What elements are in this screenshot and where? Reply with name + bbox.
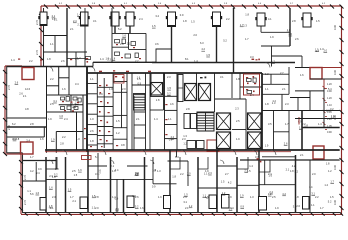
svg-text:5.2: 5.2 [223,39,227,43]
svg-text:2.3: 2.3 [285,102,289,106]
svg-text:2.8: 2.8 [152,168,156,172]
svg-text:1.5: 1.5 [116,119,120,123]
svg-text:2.1: 2.1 [282,87,286,91]
svg-text:2.8: 2.8 [292,19,296,23]
wall y58 segment [67,58,85,60]
top dimension line [41,5,342,7]
svg-text:1.1: 1.1 [203,194,207,198]
svg-text:2.70: 2.70 [7,84,11,90]
svg-text:4.6: 4.6 [170,102,174,106]
svg-text:1.4: 1.4 [132,194,136,198]
svg-text:1.9: 1.9 [48,117,52,121]
wall x289 [288,111,290,151]
svg-text:1.6: 1.6 [137,76,141,80]
wall x233 [233,8,235,73]
right col horizontals [113,81,127,83]
wall y94 [262,93,289,95]
red right annex outline [322,68,342,89]
wall y104 [59,104,83,106]
micro text on top dimension line [59,3,326,5]
svg-text:1.20: 1.20 [327,83,332,86]
svg-text:2.6: 2.6 [284,142,288,146]
svg-text:5.2: 5.2 [136,171,140,175]
svg-text:0.9: 0.9 [152,185,156,189]
wall y33 bath pods [112,32,146,34]
wall x290 [289,8,291,46]
left core columns [87,73,132,150]
svg-text:1.6: 1.6 [36,191,40,195]
column base bars [40,24,221,27]
red entry mark corridor [82,156,92,160]
svg-text:1.6: 1.6 [59,114,63,118]
svg-text:1.4: 1.4 [100,57,104,61]
shaft duct column [132,73,150,150]
svg-text:2.70: 2.70 [23,174,27,180]
stair 1 (treads) [134,94,146,111]
svg-text:3.4: 3.4 [155,14,159,18]
column C2 [81,12,89,26]
svg-text:1.7: 1.7 [299,126,303,130]
wall y97 [290,97,310,99]
svg-text:2.8: 2.8 [16,137,20,141]
wall y157 right [262,156,296,158]
wall x76 top-left [75,52,77,67]
svg-text:4.2: 4.2 [292,164,296,168]
svg-text:2.3: 2.3 [49,174,53,178]
svg-text:2.1: 2.1 [70,27,74,31]
svg-text:0.9: 0.9 [99,92,103,96]
facade column symbols [40,12,311,27]
svg-text:2.2: 2.2 [226,17,230,21]
svg-text:1.4: 1.4 [154,117,158,121]
vertical labels near dimension lines [7,19,337,205]
svg-text:1.1: 1.1 [311,203,315,207]
svg-text:2.4: 2.4 [250,93,254,97]
svg-text:1.8: 1.8 [183,19,187,23]
wall y56 right [272,55,303,57]
tick marks top [44,5,344,9]
red cluster above divider right of core [252,59,260,61]
svg-text:1.8: 1.8 [265,102,269,106]
upper row stubs [56,153,153,184]
svg-text:5.2: 5.2 [54,172,58,176]
svg-text:1.7: 1.7 [320,206,324,210]
svg-text:1.6: 1.6 [49,186,53,190]
svg-text:1.6: 1.6 [40,137,44,141]
wall y49 [129,48,147,50]
svg-text:1.3: 1.3 [243,24,247,28]
svg-text:0.90: 0.90 [327,90,332,93]
door swing arcs [48,63,276,165]
wall y52 top-left [44,51,88,53]
svg-text:1.5: 1.5 [206,53,210,57]
svg-text:2.7: 2.7 [280,71,284,75]
wall x76 lower [76,112,78,150]
svg-text:2.4: 2.4 [64,117,68,121]
wall x273 [273,111,275,151]
shaft walls [150,73,152,96]
bottom exterior wall [22,212,340,214]
annex walls right [295,88,341,128]
lower band top walls [23,159,340,162]
svg-text:2.0: 2.0 [312,172,316,176]
top band partition walls [67,8,290,73]
column C1 [40,12,47,26]
wall y78 [59,77,69,79]
red marks below corridor right [257,158,262,162]
core east partitions [197,73,263,150]
column C7 [257,13,265,26]
left step horizontal red [5,153,21,155]
core bottom wall [45,149,340,151]
svg-text:4.2: 4.2 [171,135,175,139]
svg-text:1.3: 1.3 [157,169,161,173]
svg-text:2.5: 2.5 [236,119,240,123]
wall x46 [46,67,48,153]
svg-text:4.1: 4.1 [268,17,272,21]
svg-text:2.0: 2.0 [289,32,293,36]
svg-text:4.2: 4.2 [201,47,205,51]
red fixtures NE core [246,76,256,92]
corridor red line [45,151,291,153]
svg-text:1.8: 1.8 [245,12,249,16]
wall x83 [82,95,84,150]
wall y74 [262,73,289,75]
wall x44 stub [43,127,45,137]
svg-text:5.2: 5.2 [135,204,139,208]
svg-text:1.5: 1.5 [74,173,78,177]
svg-text:4.2: 4.2 [30,169,34,173]
svg-text:2.1: 2.1 [127,42,131,46]
svg-text:2.4: 2.4 [139,17,143,21]
core wall x121 [121,84,123,128]
svg-text:2.70: 2.70 [7,124,11,130]
corridor-side bath pods lower band [46,157,270,172]
svg-text:2.0: 2.0 [95,206,99,210]
svg-text:1.7: 1.7 [285,122,289,126]
upper-left exterior wall [43,8,45,66]
svg-text:2.6: 2.6 [296,204,300,208]
svg-text:3.1: 3.1 [53,99,57,103]
svg-text:8.1: 8.1 [185,57,189,61]
cell marks above elevator C [200,77,206,79]
svg-text:1.8: 1.8 [47,57,51,61]
wall x289 [288,67,290,94]
svg-text:2.2: 2.2 [62,135,66,139]
svg-text:2.0: 2.0 [324,49,328,53]
tick marks left side [3,14,43,211]
svg-text:2.70: 2.70 [23,199,27,205]
svg-text:1.9: 1.9 [106,57,110,61]
svg-text:1.0: 1.0 [90,117,94,121]
svg-text:1.1: 1.1 [50,42,54,46]
svg-text:3.4: 3.4 [115,168,119,172]
svg-text:2.3: 2.3 [52,195,56,199]
svg-text:3.30: 3.30 [333,199,337,205]
bottom dimension line [21,213,342,215]
svg-text:4.8: 4.8 [25,107,29,111]
svg-text:2.4: 2.4 [73,19,77,23]
svg-text:2.1: 2.1 [136,117,140,121]
svg-text:1.2: 1.2 [189,204,193,208]
svg-text:1.9: 1.9 [275,206,279,210]
svg-text:0.8: 0.8 [121,143,125,147]
column C4 [126,12,134,26]
svg-text:3.1: 3.1 [220,75,224,79]
svg-text:2.3: 2.3 [167,75,171,79]
red annex tick marks [323,86,326,125]
elevator shaft A [151,83,163,96]
wall y127 right [302,127,340,129]
svg-text:1.8: 1.8 [304,124,308,128]
svg-text:1.6: 1.6 [140,206,144,210]
wall x85 top band [84,8,86,67]
svg-text:1.1: 1.1 [92,205,96,209]
svg-text:1.7: 1.7 [245,37,249,41]
svg-text:1.8: 1.8 [172,174,176,178]
svg-text:2.8: 2.8 [60,142,64,146]
lobby wall / central duct column [165,73,178,150]
svg-text:2.5: 2.5 [272,195,276,199]
wall y112 [47,111,84,113]
tick marks right [340,14,344,210]
column C3 [111,12,119,26]
red outline cell top of core [114,75,124,84]
svg-text:2.5: 2.5 [72,169,76,173]
red room C (upper right) [310,68,322,80]
fixture cluster at wall junction [86,58,88,63]
tick marks bottom [24,212,343,215]
svg-text:2.2: 2.2 [180,172,184,176]
svg-text:3.30: 3.30 [333,24,337,30]
svg-text:3.4: 3.4 [26,139,30,143]
svg-text:3.1: 3.1 [293,204,297,208]
core wall x104 [103,78,105,148]
svg-text:1.8: 1.8 [326,162,330,166]
svg-text:1.7: 1.7 [240,23,244,27]
right dimension line [341,6,343,214]
svg-text:1.5: 1.5 [167,86,171,90]
wall x55 top-left [54,36,56,53]
svg-text:0.95: 0.95 [327,111,332,114]
core wall x127 [126,73,128,150]
svg-text:2.1: 2.1 [300,153,304,157]
svg-text:0.9: 0.9 [38,167,42,171]
wall x171 [171,26,173,63]
svg-text:1.7: 1.7 [30,155,34,159]
svg-text:1.1: 1.1 [90,77,94,81]
svg-text:2.8: 2.8 [95,195,99,199]
wall x271 [270,74,272,84]
svg-text:2.1: 2.1 [52,14,56,18]
lower-left exterior wall [22,153,24,212]
svg-text:2.1: 2.1 [77,22,81,26]
red room D (corridor right) [313,146,324,159]
svg-text:2.1: 2.1 [115,207,119,211]
red box shelf [310,78,342,80]
wall x302 [301,56,303,68]
svg-text:1.6: 1.6 [78,168,82,172]
wall y84 [262,83,289,85]
svg-text:2.6: 2.6 [15,80,19,84]
svg-text:3.30: 3.30 [333,69,337,75]
svg-text:2.70: 2.70 [35,49,39,55]
svg-text:1.4: 1.4 [11,58,15,62]
wall x261 stub [260,26,262,32]
svg-text:1.1: 1.1 [168,117,172,121]
wall x271 right [271,46,273,67]
svg-text:1.3: 1.3 [272,101,276,105]
svg-text:1.8: 1.8 [287,28,291,32]
svg-text:2.8: 2.8 [30,122,34,126]
svg-text:1.3: 1.3 [109,87,113,91]
svg-text:1.8: 1.8 [236,77,240,81]
svg-text:1.5: 1.5 [330,195,334,199]
wall x56 lower [55,132,57,153]
duct shaft pair left of stair 2 [184,114,197,129]
svg-text:1.5: 1.5 [92,194,96,198]
wall x71 upper [70,95,72,112]
core west wall [86,67,88,153]
vent shaft column [178,75,183,102]
wall x112 [111,8,113,62]
svg-text:2.1: 2.1 [54,18,58,22]
apartment party walls [46,150,296,212]
core top wall [87,72,262,74]
svg-text:5.2: 5.2 [206,196,210,200]
wall x216 [216,26,218,63]
svg-text:1.6: 1.6 [229,206,233,210]
svg-text:1.9: 1.9 [240,194,244,198]
svg-text:3.1: 3.1 [311,191,315,195]
svg-text:1.5: 1.5 [316,19,320,23]
svg-text:1.8: 1.8 [49,204,53,208]
wall x58.7 upper [58,67,60,96]
wall y131 [56,131,83,133]
core east wall [261,73,263,150]
left block bath fixtures [61,97,82,110]
column C5 [168,12,176,27]
wall y62 [112,61,140,63]
radiator left room [40,198,46,211]
svg-text:2.2: 2.2 [315,195,319,199]
svg-text:1.6: 1.6 [300,73,304,77]
left top horizontal red [5,65,22,67]
wall x67 [66,8,68,67]
svg-text:2.0: 2.0 [187,172,191,176]
room divider horizontals in lower band [23,160,311,213]
radiator rects bottom [80,195,309,211]
mid col horizontals [97,86,113,88]
svg-text:1.4: 1.4 [309,185,313,189]
svg-text:5.2: 5.2 [118,27,122,31]
svg-text:4.2: 4.2 [282,192,286,196]
svg-text:3.5: 3.5 [268,122,272,126]
svg-text:5.2: 5.2 [167,91,171,95]
elevator shaft E [217,132,231,149]
svg-text:1.5: 1.5 [152,24,156,28]
svg-text:2.2: 2.2 [29,59,33,63]
svg-text:1.9: 1.9 [265,144,269,148]
left step exterior wall [7,152,23,154]
svg-text:2.0: 2.0 [193,33,197,37]
svg-text:3.1: 3.1 [93,19,97,23]
wall x128 pods [128,33,130,49]
wall y127 thick [7,126,47,128]
svg-text:1.9: 1.9 [315,47,319,51]
svg-text:2.8: 2.8 [186,107,190,111]
wall y32 right [261,31,290,33]
small room left of x171 [156,49,172,63]
svg-text:5.2: 5.2 [328,200,332,204]
svg-text:1.8: 1.8 [295,195,299,199]
svg-text:2.8: 2.8 [55,167,59,171]
svg-text:1.5: 1.5 [221,179,225,183]
divider left room [35,162,37,181]
marks row above left divider [11,56,81,63]
wall x282 [281,94,283,110]
svg-text:0.90: 0.90 [327,131,332,134]
room area labels [13,12,335,211]
wall x298 [297,98,299,111]
svg-text:1.20: 1.20 [327,97,332,100]
svg-text:5.1: 5.1 [95,155,99,159]
core wall x113 [112,73,114,150]
svg-text:1.6: 1.6 [122,33,126,37]
svg-text:1.7: 1.7 [70,195,74,199]
svg-text:1.4: 1.4 [318,122,322,126]
svg-text:2.1: 2.1 [23,94,27,98]
svg-text:1.2: 1.2 [328,169,332,173]
svg-text:1.7: 1.7 [330,179,334,183]
svg-text:2.3: 2.3 [208,171,212,175]
svg-text:1.6: 1.6 [269,173,273,177]
svg-text:2.4: 2.4 [269,190,273,194]
svg-text:4.2: 4.2 [228,181,232,185]
svg-text:0.9: 0.9 [115,196,119,200]
svg-text:2.0: 2.0 [122,87,126,91]
svg-text:2.3: 2.3 [235,107,239,111]
elevator shaft G [248,132,262,149]
svg-text:1.9: 1.9 [236,137,240,141]
svg-text:1.2: 1.2 [222,191,226,195]
svg-text:2.6: 2.6 [61,59,65,63]
svg-text:1.8: 1.8 [156,98,160,102]
svg-text:0.9: 0.9 [138,81,142,85]
svg-text:1.1: 1.1 [27,189,31,193]
red room E (above corridor, centre-right) [207,140,219,151]
svg-text:1.10: 1.10 [327,104,332,107]
svg-text:2.6: 2.6 [90,129,94,133]
svg-text:12.6: 12.6 [25,87,31,91]
wall y110 [262,110,340,112]
svg-text:1.1: 1.1 [265,87,269,91]
core wall x132 [131,73,133,150]
svg-text:2.1: 2.1 [72,199,76,203]
svg-text:6.2: 6.2 [12,122,16,126]
elevator shaft B [185,84,197,101]
svg-text:1.2: 1.2 [265,72,269,76]
wall x115 stem [114,26,116,33]
elevator shaft D [217,113,231,130]
svg-text:1.7: 1.7 [271,60,275,64]
svg-text:3.1: 3.1 [183,200,187,204]
svg-text:1.8: 1.8 [112,57,116,61]
core wall x97 [96,73,98,150]
svg-text:1.3: 1.3 [250,195,254,199]
svg-text:1.9: 1.9 [270,35,274,39]
svg-text:1.7: 1.7 [97,172,101,176]
